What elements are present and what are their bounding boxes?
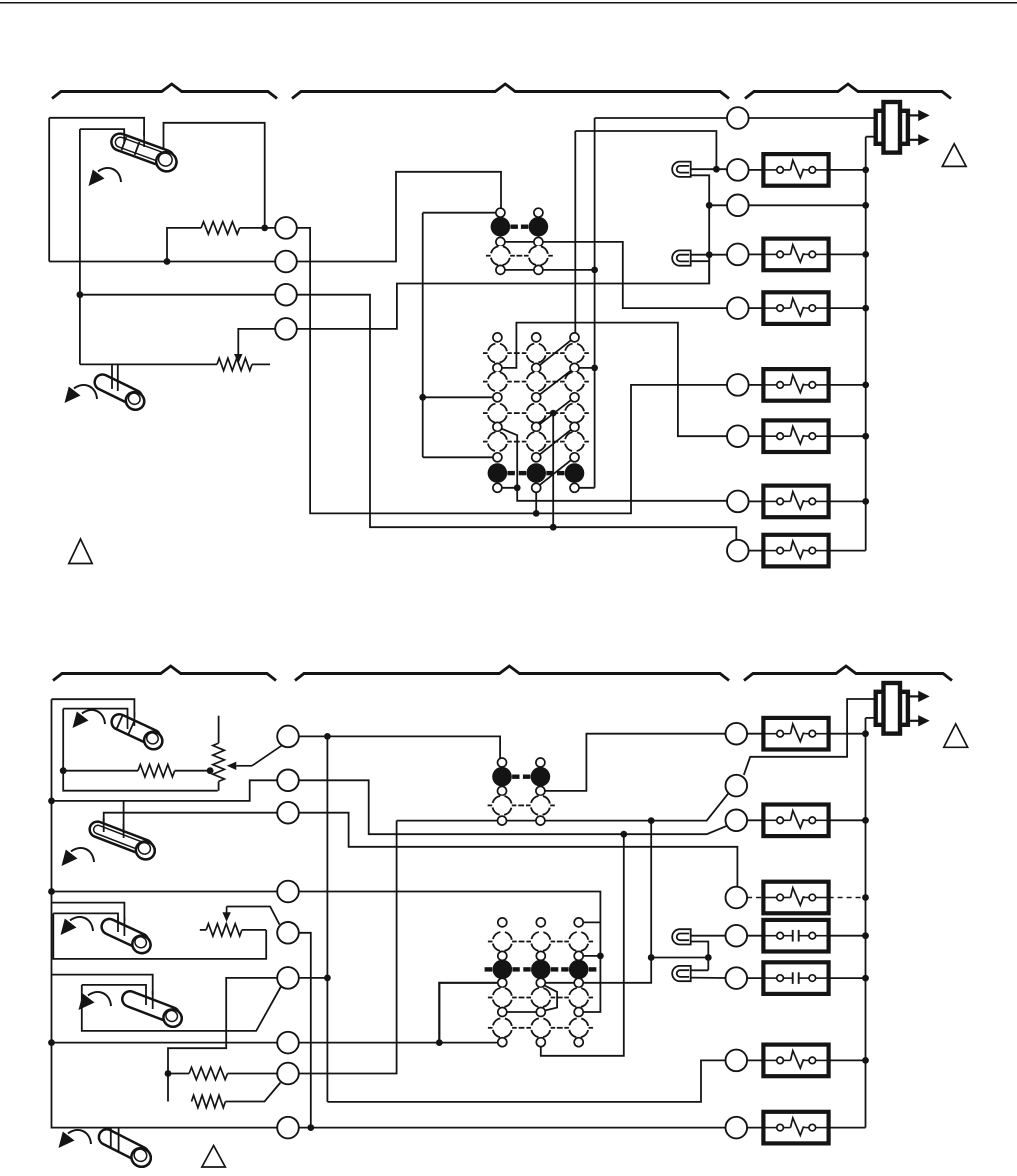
wire: top edge to mercury switch S1 electrode 1	[49, 118, 144, 136]
K1 dashed-row ticks	[486, 255, 491, 257]
node: jog junction	[514, 484, 521, 491]
load box BR1	[763, 718, 828, 750]
wire: K1 feed to K2 col1 row457	[423, 456, 498, 458]
mercury switch S3	[108, 712, 166, 753]
wire: load row y=384.9	[749, 384, 764, 386]
wire: load row y=550.6	[749, 550, 764, 552]
brace: sensing elements group (bottom left)	[53, 666, 276, 681]
resistor R2 lead	[63, 770, 138, 772]
K1 filled-row link bars	[511, 224, 518, 228]
wire: S3b electrode stub from B2 feed line	[123, 801, 125, 829]
K2 diagonals col3 to col2	[536, 337, 574, 368]
triangle note 2	[942, 144, 966, 167]
node: L1 junction	[713, 166, 720, 173]
brace: thermostat group (top middle)	[292, 84, 729, 99]
node: B4-net junction	[597, 953, 604, 960]
wire: L4 bottom leg to BR6	[691, 977, 737, 980]
R3 right lead to B8	[228, 1073, 289, 1075]
wire: K4 row1012 link	[502, 1011, 541, 1013]
potentiometer P2 (vertical)	[213, 743, 225, 781]
wire: to mercury switch S1 electrode 2	[80, 129, 124, 135]
load box BR7	[763, 1045, 828, 1077]
bus junction dots bottom	[862, 730, 869, 737]
curved arrow at S1	[98, 168, 121, 182]
K2 filled-row bars	[508, 471, 515, 475]
contact grid K4	[498, 918, 507, 927]
wire: K3 row 821 net	[397, 792, 730, 820]
wire: load row y=501.4	[749, 500, 764, 502]
wire: B5 right down to B9 line	[288, 933, 311, 1128]
load box BR5 (capacitor)	[763, 920, 828, 952]
wire: BR7 leads	[747, 1059, 763, 1061]
wire: K4/BR2 net vertical x651 down to row983	[583, 821, 651, 983]
wire: common horizontal to terminal T2	[49, 261, 286, 263]
wire: K4 col3 top stub	[583, 921, 600, 923]
transformer X2	[876, 692, 908, 725]
terminal circles layer (bottom diagram)	[277, 726, 299, 748]
wire: right vertical bus x594 from terminal row1	[575, 118, 595, 488]
resistor R1 right lead	[240, 227, 286, 229]
wire: K4 row983 col2-col3 link	[541, 982, 579, 984]
potentiometer P3 left stub	[200, 929, 206, 931]
node: R3 junction	[165, 1070, 172, 1077]
load box (heat relay) y=436.2	[763, 420, 828, 452]
box S4 outline / wire loop	[53, 913, 266, 959]
node: drop junction	[533, 510, 540, 517]
wire: K2 col1 row368 route to terminal row7	[497, 323, 737, 437]
resistor R1	[201, 222, 240, 234]
R4 right lead + blade to B8	[225, 1083, 280, 1102]
wire: K2 dash-row tap down to T3 route	[552, 413, 554, 527]
node: tap top junction	[550, 410, 557, 417]
page top border	[0, 2, 1017, 4]
node: B6 line junction K4 col1 branch	[436, 1039, 443, 1046]
wire: B1 right to relay grid K3 col1 top	[288, 736, 500, 762]
node: bus junction K2 col3 row368	[591, 365, 598, 372]
wiper blade to terminal B1	[252, 746, 282, 766]
wire: K4 col2 bottom route to B2 net	[541, 834, 624, 1056]
wire: S5 outer top edge / electrode	[52, 975, 153, 995]
node: resistor R2 junction	[60, 767, 67, 774]
wire: second vertical bus left	[79, 129, 81, 364]
potentiometer P3	[206, 924, 242, 936]
mercury switch S3b	[86, 819, 158, 862]
load box (heat relay) y=254.4	[763, 239, 828, 271]
load box (heat relay) y=308.1	[763, 292, 828, 324]
wire: K2 col1 row427 jog down to terminal row8	[497, 427, 737, 501]
wire: bus3 to BR7	[327, 1060, 736, 1102]
wire: K4 col1 row983 to B6 line	[439, 983, 502, 1043]
node: bus3 junction B7	[324, 975, 331, 982]
curved arrow at S6	[68, 1130, 91, 1144]
load box BR6 (capacitor)	[763, 962, 828, 994]
curved arrow at S4	[70, 917, 93, 931]
K3 filled-row bars	[512, 775, 519, 779]
wire: S3 inner electrode wire	[63, 709, 127, 722]
contact grid K3	[498, 758, 507, 767]
wire: K1 row 242 link and route to terminal T5 right	[500, 242, 737, 308]
S1 electrode ticks	[143, 131, 145, 147]
wire: S3 inner left drop to resistor line and pot bottom	[63, 709, 218, 791]
node: left bus junction B2 feed	[48, 798, 55, 805]
node: K3 row junction to K4	[648, 817, 655, 824]
node: B5 net joins B9 line	[307, 1124, 314, 1131]
wire: T4 to potentiometer wiper arrow	[238, 329, 286, 355]
brace: control panel group (bottom right)	[744, 666, 952, 681]
wire: B2 feed from left bus	[52, 780, 289, 801]
potentiometer P2 top lead	[218, 716, 220, 743]
terminal circles layer (top diagram)	[275, 217, 297, 239]
wire: B3 left line to S3b electrode	[104, 813, 288, 824]
P1 right lead	[252, 363, 270, 365]
P2 wiper arrow	[227, 762, 237, 770]
wire: T3 left branch	[80, 294, 286, 296]
transformer X1	[876, 111, 908, 144]
node: P2 left junction	[207, 767, 214, 774]
wire: B7 right to bus3	[288, 977, 327, 979]
curved arrow at S3	[82, 710, 105, 724]
potentiometer P1	[217, 358, 252, 370]
wire: lamp tap horizontal	[651, 957, 708, 959]
node: x651 junction lamp tap	[648, 954, 655, 961]
wire: L4 top leg	[691, 969, 709, 971]
node: lamp bus junction R3	[706, 202, 713, 209]
K4 dashed-row ticks	[488, 941, 493, 943]
wire: B8 right to grid3 row net	[288, 821, 397, 1074]
K4 filled-row bars	[485, 967, 493, 971]
triangle note 4	[944, 724, 968, 747]
mercury switch S1	[108, 131, 180, 174]
S3 electrode ticks	[133, 712, 135, 726]
node: bus3 junction at B1	[324, 733, 331, 740]
load box (heat relay) y=501.4	[763, 486, 828, 518]
mercury switch S6 electrode stubs	[110, 1128, 112, 1147]
contact grid K2	[493, 333, 502, 342]
wire: K1 left feed	[423, 213, 501, 458]
left bus vertical	[52, 699, 289, 1127]
S5 electrode stubs into capsule	[152, 991, 154, 1009]
load box BR8	[763, 1112, 828, 1144]
mercury switch S4	[98, 916, 154, 956]
wire: S3 outer electrode wire	[52, 699, 135, 717]
wire: K2 col2 bottom drop to long wire	[535, 488, 537, 514]
wire: BR5 leads	[747, 935, 763, 937]
bus junction dots	[862, 167, 869, 174]
bus3 vertical	[326, 736, 328, 1102]
lamp L1	[672, 162, 691, 177]
wire: L2 bottom leg	[691, 260, 710, 262]
mercury switch S6	[94, 1127, 154, 1170]
triangle note 3	[202, 1146, 225, 1168]
wire: T2 up-over to relay grid K1 col1 top	[286, 172, 501, 262]
wire: K1 row 270 link to vertical bus	[500, 269, 594, 271]
wire: S5 inner electrode wire	[82, 985, 146, 999]
wire: T3 long route to load row 9	[286, 295, 736, 551]
S4 electrode stubs into capsule	[123, 917, 125, 936]
wire: L1 top leg to terminal R2	[691, 168, 738, 170]
resistor R3	[189, 1067, 227, 1079]
mercury switch S2	[91, 372, 148, 413]
wire: T1 to load row 6 (long route)	[286, 228, 738, 514]
wire: terminal R1 feed y=118	[595, 117, 876, 119]
wire: B6 line	[52, 1042, 503, 1044]
contact grid K1	[496, 208, 505, 217]
bus vertical bottom right	[866, 718, 876, 1128]
brace: outdoor sensing element group (top left)	[52, 84, 277, 99]
S3b electrode stubs into capsule	[123, 824, 125, 838]
load box BR4	[763, 882, 828, 914]
P2 bottom lead	[218, 781, 220, 790]
wire: BR1 leads	[747, 733, 763, 735]
wire: load row y=254.4	[749, 253, 764, 255]
wire: K3 col2 row791 to BR1	[540, 734, 736, 791]
load box (heat relay) y=384.9	[763, 369, 828, 401]
P3 right lead	[242, 929, 266, 931]
load box BR3	[763, 805, 828, 837]
wire: transformer X2 top-left lead to BR2	[744, 699, 876, 775]
resistor R4	[192, 1095, 226, 1107]
curved arrow at S3b	[71, 848, 94, 862]
brace: thermostat group (bottom middle)	[295, 666, 729, 681]
wire: B7 left to resistor R3	[168, 978, 288, 1102]
wire: K2 col1 bottom to jog vertical	[497, 487, 517, 489]
node: lamp bus junction	[705, 954, 712, 961]
wire: terminal R3 to bus	[749, 204, 866, 206]
bus vertical right	[866, 137, 876, 551]
R2 right lead to potentiometer P2	[175, 770, 210, 772]
node: branch junction on left bus	[77, 291, 84, 298]
wire: load row y=169.9	[749, 169, 764, 171]
wire: L1 bottom leg down the lamp bus	[691, 175, 710, 283]
wire: B3 route down to BR4	[288, 813, 737, 887]
resistor R1 left lead + vertical	[167, 228, 201, 262]
wire: K4 col2 bypass	[541, 984, 557, 1012]
brace: control panel group (top right)	[745, 84, 951, 99]
node: left bus junction B6	[48, 1039, 55, 1046]
wire: K4 col3 row956 stub	[583, 955, 600, 957]
wire: B9 line to BR8	[288, 1127, 736, 1129]
mercury switch S5	[119, 989, 185, 1029]
node: tap bottom junction	[550, 524, 557, 531]
wire: heat anticipator line y=364	[80, 363, 217, 365]
P3 arrow from B5	[227, 907, 280, 925]
node: bus junction K1 row270	[591, 267, 598, 274]
wire: L3 top leg to BR5	[691, 935, 737, 937]
wire: BR6 leads	[747, 977, 763, 979]
wire: load row y=436.2	[749, 435, 764, 437]
wire: T4 up-over to cooling terminal row	[286, 255, 709, 329]
mercury switch S2 electrode stubs	[111, 364, 113, 389]
node: lamp bus junction R4	[706, 251, 713, 258]
wire: lamp line top y=131	[575, 131, 716, 169]
wire: B2 route to relay terminal BR3 and K4	[288, 780, 728, 834]
curved arrow at S5	[88, 992, 111, 1006]
wire: load row y=308.1	[749, 307, 764, 309]
K2 dashed-row ticks and dashes	[483, 352, 488, 354]
K3 dashed-row ticks	[488, 804, 493, 806]
resistor R3 lead	[168, 1073, 189, 1075]
wire: L2 top leg / terminal R4 feed	[691, 254, 738, 256]
node: B2 route branch	[620, 831, 627, 838]
lamp L3	[672, 929, 691, 944]
wire: BR3 leads	[747, 819, 763, 821]
wire: terminal R3 feed	[709, 204, 738, 206]
wire: L3 bottom leg down	[691, 942, 709, 971]
wire: S4 electrode wire from bus	[52, 903, 125, 921]
wire: S1 mercury end up and over to resistor R1	[164, 123, 265, 228]
arrowhead onto potentiometer P1	[234, 354, 242, 364]
resistor R2	[138, 765, 175, 777]
triangle note 1	[69, 539, 92, 564]
load box (heat relay) y=550.6	[763, 535, 828, 567]
wire: vertical from lamp line down to K2 col3 top	[574, 131, 576, 337]
node: left bus junction B4	[48, 888, 55, 895]
wire: B4 long line to K4 col3	[52, 892, 601, 1013]
node: K1/K2 feed junction	[419, 394, 426, 401]
wire: S5 inner left loop	[82, 985, 281, 1031]
load box (heat relay) y=169.9	[763, 154, 828, 186]
wire: K1 feed to K2 col1 row397	[423, 396, 498, 398]
wire: BR8 leads	[747, 1127, 763, 1129]
curved arrow at S2	[74, 385, 97, 399]
lamp L2	[672, 250, 691, 265]
node: R1 right junction	[261, 225, 268, 232]
lamp L4	[672, 966, 691, 981]
wire: left loop vertical	[48, 118, 50, 262]
wire: BR4 dashed leads	[747, 897, 763, 899]
node: R1 lead junction	[164, 258, 171, 265]
